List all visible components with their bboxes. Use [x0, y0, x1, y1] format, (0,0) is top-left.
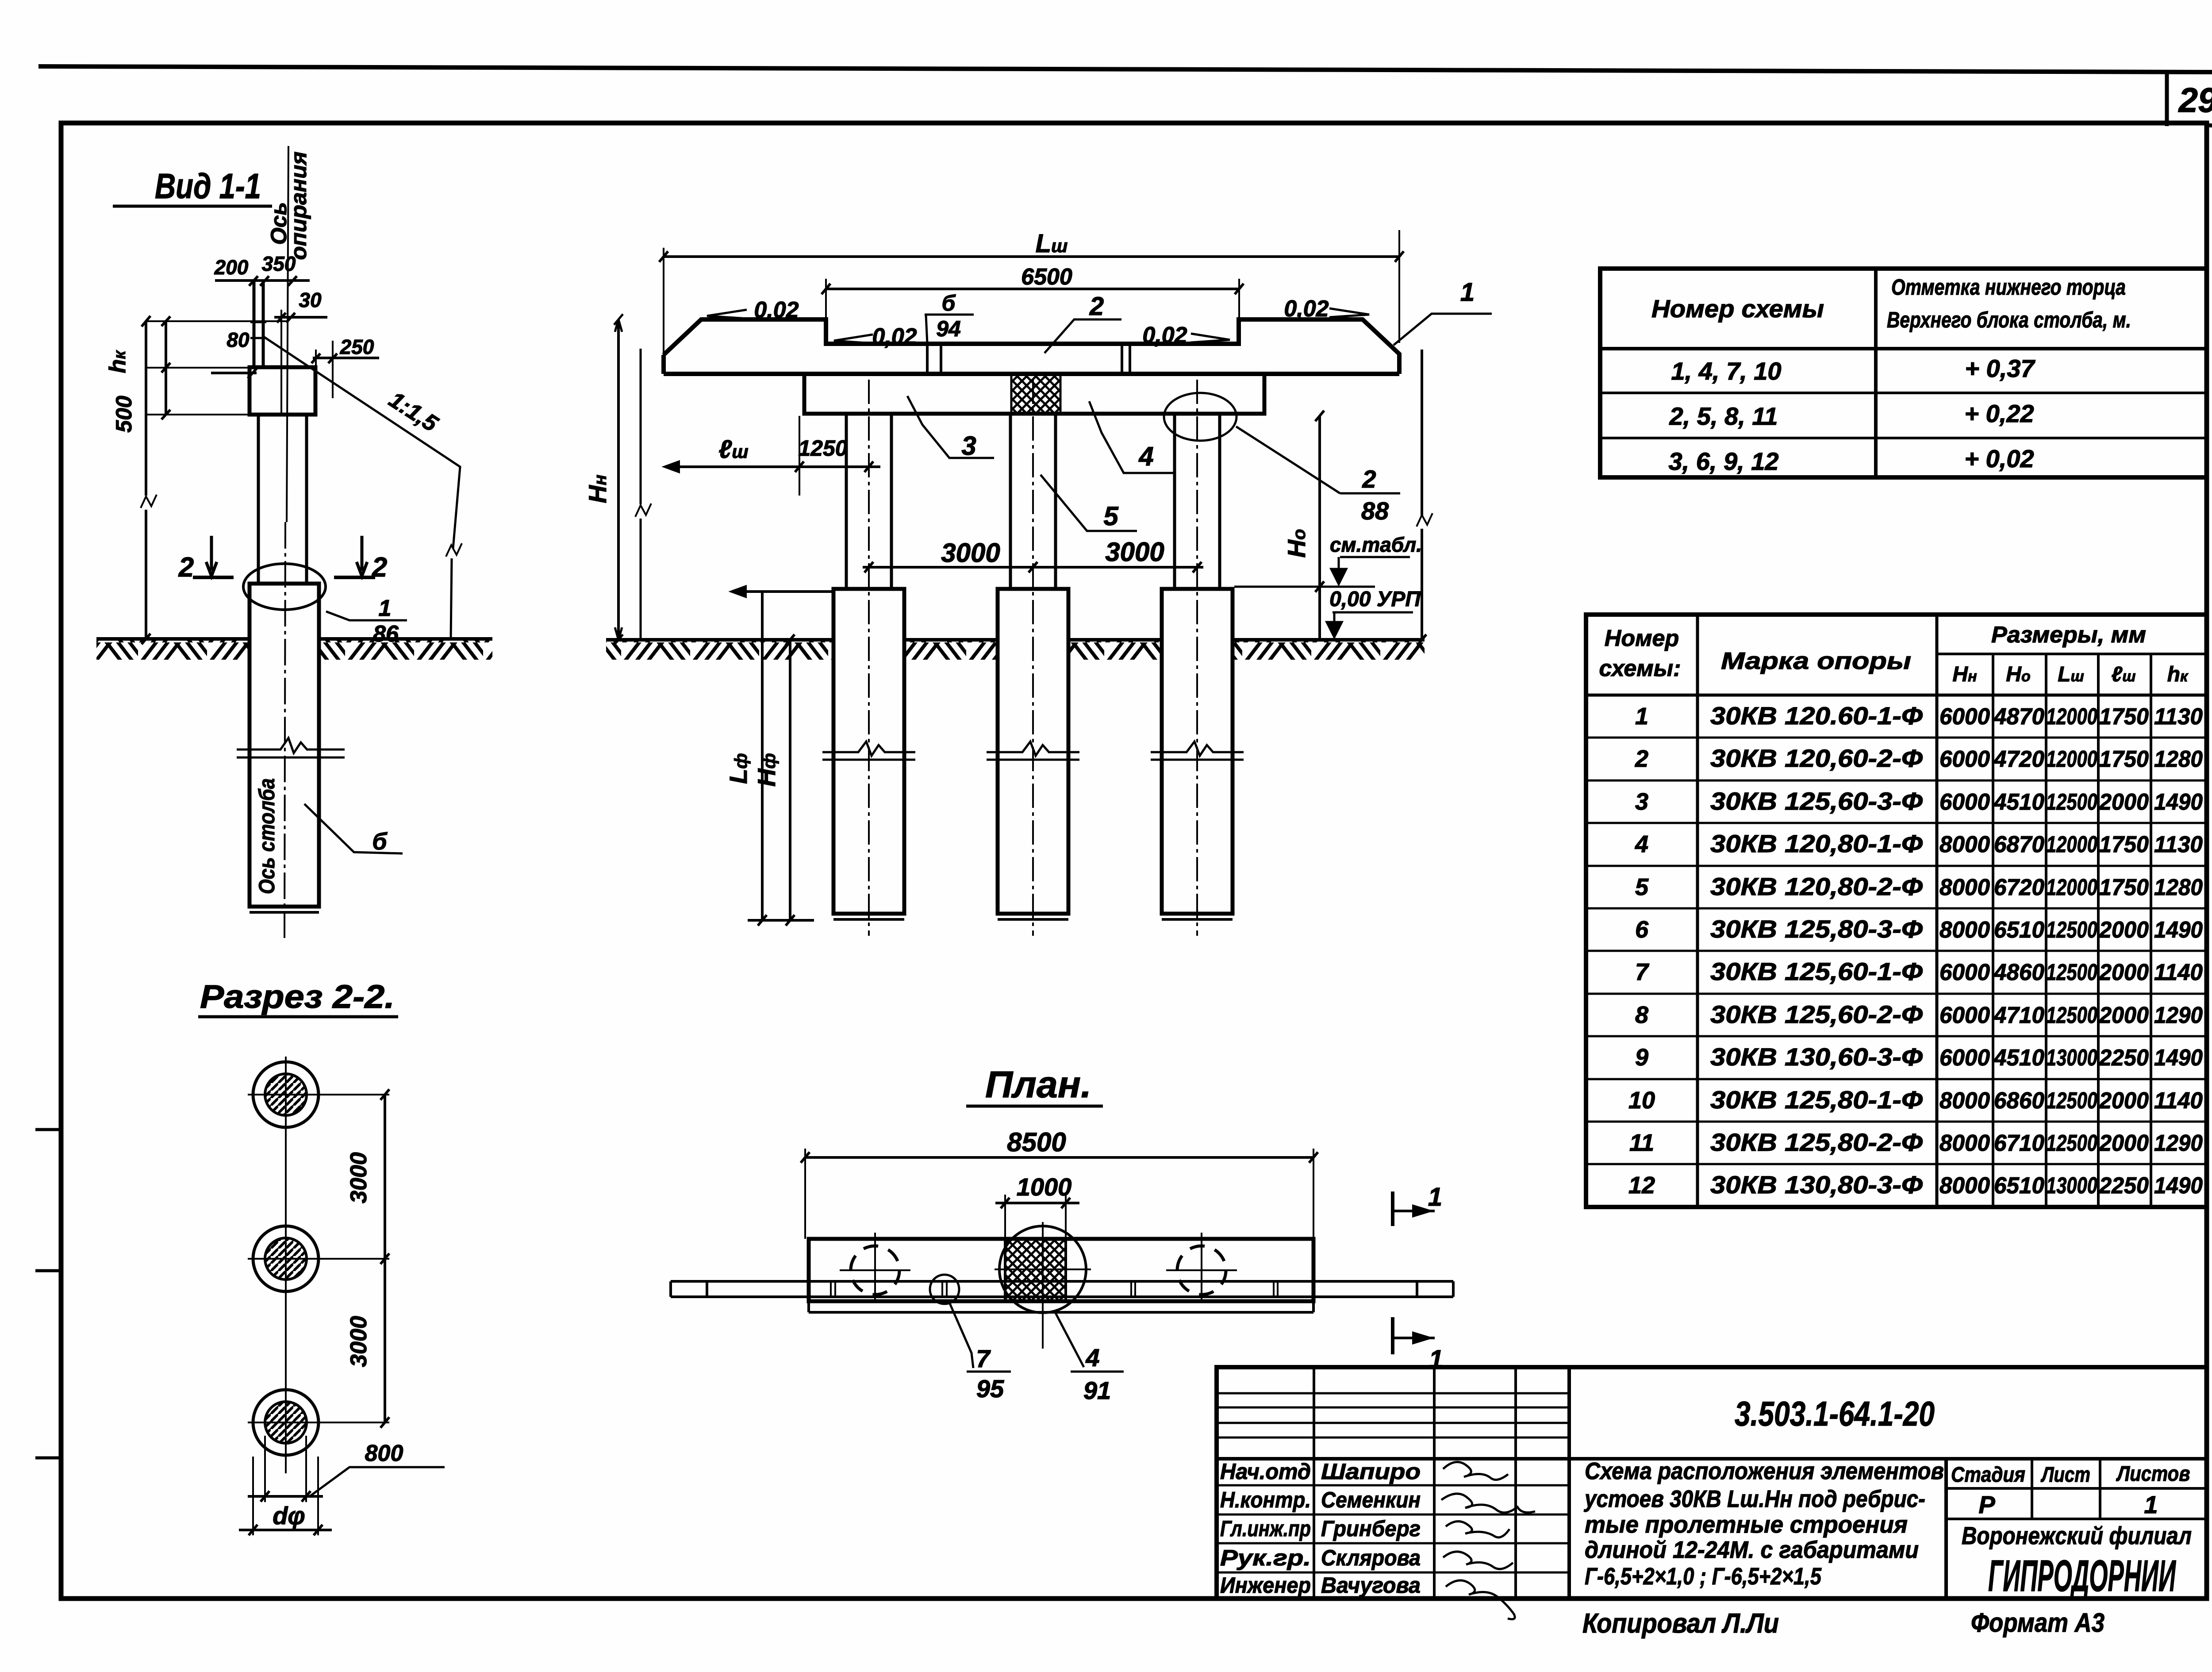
svg-text:91: 91: [1083, 1376, 1111, 1404]
plan lower band line: [809, 1311, 1313, 1314]
circle 1 inner hatched: [265, 1074, 307, 1115]
title block vertical divider 1: [1313, 1367, 1315, 1599]
svg-text:9: 9: [1635, 1044, 1648, 1071]
table2 data row 2: [1635, 744, 2203, 772]
6500 dim line: [826, 288, 1239, 290]
svg-text:4710: 4710: [1993, 1003, 2044, 1028]
callout 2/88 fraction line: [1340, 492, 1400, 495]
1000 dim ticks: [1001, 1198, 1070, 1208]
svg-text:б: б: [372, 828, 388, 855]
plan main slab rectangle: [809, 1239, 1313, 1301]
Ho dim arrows: [1315, 411, 1324, 592]
svg-text:1: 1: [1428, 1183, 1442, 1211]
table2 row line 9: [1586, 1078, 2207, 1080]
dim ticks 250: [311, 354, 337, 363]
table2 data row 6: [1635, 915, 2203, 943]
svg-text:12: 12: [1628, 1172, 1655, 1199]
bearing pad crosshatched: [1011, 375, 1060, 413]
sheet top rule line: [38, 66, 2212, 72]
callout 5 underline leader: [1041, 475, 1137, 531]
svg-text:6860: 6860: [1994, 1088, 2044, 1114]
svg-text:Номер схемы: Номер схемы: [1651, 295, 1824, 323]
section marker 2 left arrow: [206, 536, 217, 576]
dim dphi ticks: [249, 1525, 323, 1535]
ellipse callout on column 3: [1164, 393, 1237, 441]
table2 size col divider 2: [2045, 654, 2047, 1207]
slope 0.02 left outer arrow: [707, 310, 747, 319]
dim 800 leader: [310, 1467, 445, 1496]
ground hatch segment 3: [1068, 641, 1162, 660]
svg-text:Номер: Номер: [1605, 626, 1679, 651]
hidden column circle 1 (dashed): [851, 1246, 899, 1295]
signature squiggle 3: [1446, 1521, 1509, 1537]
see table level arrow: [1331, 557, 1346, 584]
callout 7/95 leader: [949, 1303, 973, 1368]
svg-text:длиной 12-24М. с габаритами: длиной 12-24М. с габаритами: [1585, 1537, 1919, 1563]
svg-text:схемы:: схемы:: [1599, 656, 1681, 681]
table2 header bottom: [1586, 694, 2207, 697]
svg-text:2000: 2000: [2099, 1003, 2149, 1028]
svg-text:12500: 12500: [2046, 960, 2097, 985]
foundation 3 bottom second line: [1162, 918, 1233, 921]
svg-text:Г-6,5+2×1,0 ; Г-6,5+2×1,5: Г-6,5+2×1,0 ; Г-6,5+2×1,5: [1585, 1563, 1822, 1590]
svg-text:12000: 12000: [2046, 746, 2097, 772]
callout 4 underline leader: [1089, 401, 1174, 473]
table2 size col divider 4: [2150, 654, 2152, 1207]
svg-text:4720: 4720: [1993, 746, 2044, 772]
svg-text:2000: 2000: [2099, 789, 2149, 815]
svg-text:1140: 1140: [2154, 1088, 2203, 1114]
svg-text:30КВ 125,80-2-Ф: 30КВ 125,80-2-Ф: [1710, 1128, 1923, 1156]
svg-text:95: 95: [976, 1375, 1004, 1403]
svg-text:тые пролетные строения: тые пролетные строения: [1585, 1511, 1908, 1538]
table2 col divider 1: [1696, 615, 1699, 1207]
table2 data row 8: [1635, 1000, 2203, 1028]
small joint circle callout: [930, 1275, 959, 1304]
circle 3 outer: [253, 1390, 319, 1455]
title block name row line 3: [1217, 1514, 1569, 1516]
svg-text:+ 0,22: + 0,22: [1964, 400, 2034, 427]
stadia header underline: [1946, 1487, 2207, 1490]
svg-text:6: 6: [1635, 916, 1649, 943]
title block vertical divider 4: [1567, 1367, 1571, 1599]
ext line cap bottom: [146, 414, 250, 415]
see table underline: [1340, 556, 1410, 558]
dim line 30: [274, 316, 327, 319]
svg-text:12500: 12500: [2046, 789, 2097, 815]
pile bottom second line: [250, 911, 319, 914]
circle 1 outer: [253, 1062, 319, 1127]
svg-text:1130: 1130: [2154, 704, 2203, 730]
column 1 axis: [868, 380, 870, 936]
table1 row line 2: [1600, 437, 2207, 439]
callout 4/91 fraction line: [1071, 1371, 1124, 1373]
pile break lines: [237, 738, 345, 757]
ground line elevation: [606, 638, 1425, 642]
svg-text:30КВ 120,80-1-Ф: 30КВ 120,80-1-Ф: [1710, 830, 1923, 857]
view 1-1 title underline: [113, 205, 272, 208]
left height dim line Hn: [617, 319, 620, 640]
svg-text:6000: 6000: [1939, 789, 1990, 815]
title block name row line 4: [1217, 1542, 1569, 1545]
ext line cap top: [146, 367, 250, 369]
3000 dim line: [863, 566, 1203, 569]
section 2-2 underline: [198, 1015, 398, 1019]
svg-text:Листов: Листов: [2116, 1462, 2190, 1486]
1000 ext lines: [1005, 1195, 1066, 1238]
title block thin row line 1: [1217, 1392, 1569, 1395]
table1 outer box: [1600, 269, 2207, 477]
svg-text:Нач.отд: Нач.отд: [1220, 1459, 1311, 1484]
hidden column circle 2 (dashed): [1177, 1246, 1226, 1295]
hk/500 dim ticks: [161, 316, 170, 419]
title block name row line 5: [1217, 1572, 1569, 1574]
Lsh left ext line: [663, 248, 664, 358]
column 1: [846, 414, 891, 588]
pier cap beam: [804, 374, 1264, 414]
svg-text:1, 4, 7, 10: 1, 4, 7, 10: [1671, 357, 1781, 385]
break mark on slope line: [446, 543, 462, 557]
callout 3 underline leader: [907, 396, 994, 458]
section marker 2 right base: [334, 576, 375, 579]
svg-text:8000: 8000: [1939, 832, 1990, 857]
svg-text:6510: 6510: [1994, 917, 2044, 943]
svg-text:5: 5: [1103, 501, 1119, 531]
table1 row line 1: [1600, 392, 2207, 394]
section marker 1 lower arrow: [1393, 1333, 1435, 1343]
svg-text:12500: 12500: [2046, 1003, 2097, 1028]
svg-text:см.табл.: см.табл.: [1330, 533, 1422, 556]
svg-text:Разрез 2-2.: Разрез 2-2.: [200, 978, 395, 1015]
svg-text:1: 1: [1635, 703, 1648, 730]
Lsh dim ticks: [659, 251, 1404, 262]
svg-text:1: 1: [379, 596, 392, 621]
svg-text:Вид 1-1: Вид 1-1: [155, 166, 261, 206]
table2 data row 10: [1628, 1086, 2203, 1114]
1000 dim line: [995, 1202, 1079, 1204]
column tenon lines: [254, 281, 263, 367]
svg-text:12000: 12000: [2046, 875, 2097, 900]
ground hatch left of pile: [96, 640, 250, 660]
svg-text:30: 30: [299, 288, 322, 311]
foundation block 2: [998, 589, 1068, 914]
shelf outline: [664, 319, 1399, 374]
svg-text:1490: 1490: [2154, 917, 2203, 943]
svg-text:94: 94: [936, 316, 961, 341]
svg-text:1490: 1490: [2154, 1045, 2203, 1071]
svg-text:2000: 2000: [2099, 917, 2149, 943]
svg-text:7: 7: [976, 1345, 991, 1372]
signature squiggle 1: [1443, 1462, 1508, 1480]
table2 row line 11: [1586, 1163, 2207, 1165]
svg-text:2000: 2000: [2099, 960, 2149, 985]
table2 row line 2: [1586, 780, 2207, 782]
dim line 250: [313, 357, 379, 359]
Lsh dim line: [664, 255, 1399, 258]
foundation block 3: [1162, 589, 1233, 914]
callout 1/86 leader: [326, 611, 407, 620]
svg-text:6870: 6870: [1994, 832, 2044, 857]
svg-text:4: 4: [1085, 1344, 1099, 1372]
svg-text:Склярова: Склярова: [1321, 1545, 1421, 1570]
6500 ext lines: [826, 279, 1239, 319]
svg-text:1750: 1750: [2099, 832, 2149, 857]
svg-text:8000: 8000: [1939, 1173, 1990, 1199]
ext line 250 left: [315, 350, 317, 374]
signature squiggle 5: [1446, 1580, 1515, 1619]
lsh/1250 dim line: [665, 465, 880, 468]
svg-text:6710: 6710: [1994, 1130, 2044, 1156]
lsh dim arrows: [665, 461, 873, 472]
Lf dim top line: [732, 587, 834, 596]
svg-text:1490: 1490: [2154, 789, 2203, 815]
title block thin row line 3: [1217, 1422, 1569, 1424]
svg-text:11: 11: [1629, 1130, 1654, 1156]
title block thin row line 2: [1217, 1407, 1569, 1409]
svg-text:2000: 2000: [2099, 1130, 2149, 1156]
title block thin row line 4: [1217, 1437, 1569, 1439]
circle 3 inner hatched: [265, 1402, 307, 1443]
svg-text:350: 350: [262, 252, 296, 275]
dim ticks 200/350: [249, 276, 297, 286]
ext line 250 right: [332, 341, 334, 398]
central bearing circle: [999, 1226, 1086, 1313]
vertical dim line hk/500: [165, 321, 167, 415]
circle 1 crosshair vertical: [874, 1233, 876, 1301]
page number box left edge: [2165, 70, 2169, 126]
svg-text:6000: 6000: [1939, 704, 1990, 730]
svg-text:+ 0,37: + 0,37: [1965, 354, 2035, 382]
level text underline: [1333, 611, 1413, 614]
shelf joint left (94): [927, 345, 941, 373]
svg-text:200: 200: [214, 256, 249, 279]
svg-text:1290: 1290: [2154, 1003, 2203, 1028]
svg-text:30КВ 125,60-2-Ф: 30КВ 125,60-2-Ф: [1710, 1000, 1923, 1028]
callout b/94 fraction line: [925, 314, 974, 316]
svg-text:Отметка нижнего торца: Отметка нижнего торца: [1891, 275, 2126, 300]
table2 size col divider 3: [2097, 654, 2100, 1207]
svg-text:1: 1: [1429, 1345, 1443, 1374]
table2 row line 8: [1586, 1035, 2207, 1038]
dim line 200/350: [215, 279, 310, 282]
column 2: [1010, 414, 1056, 588]
svg-text:86: 86: [373, 621, 399, 647]
svg-text:План.: План.: [985, 1064, 1091, 1105]
svg-text:800: 800: [365, 1441, 403, 1466]
svg-text:+ 0,02: + 0,02: [1964, 445, 2034, 473]
svg-text:13000: 13000: [2046, 1045, 2097, 1071]
table2 row line 6: [1586, 950, 2207, 952]
stadia list listov divider 2: [2099, 1459, 2101, 1519]
dim line 80: [211, 372, 257, 374]
strip joint tick 2: [1131, 1283, 1135, 1297]
table2 size col divider 1: [1992, 654, 1994, 1207]
svg-text:3000: 3000: [1105, 537, 1164, 567]
table2 row line 7: [1586, 993, 2207, 995]
ground line view 1-1: [96, 637, 492, 641]
svg-text:6510: 6510: [1994, 1173, 2044, 1199]
svg-text:2, 5, 8, 11: 2, 5, 8, 11: [1669, 402, 1778, 430]
callout b leader: [304, 804, 403, 853]
Lf/Hf bottom ticks: [758, 915, 795, 926]
dim dphi line: [239, 1529, 332, 1531]
svg-text:30КВ 120.60-1-Ф: 30КВ 120.60-1-Ф: [1710, 702, 1923, 730]
svg-text:250: 250: [340, 335, 374, 358]
svg-text:12000: 12000: [2046, 704, 2097, 730]
ground hatch segment 4: [1233, 641, 1425, 660]
svg-text:2250: 2250: [2099, 1045, 2149, 1071]
svg-text:Вачугова: Вачугова: [1321, 1573, 1421, 1598]
callout 2 underline and leader: [1045, 319, 1121, 353]
svg-text:6720: 6720: [1994, 875, 2044, 900]
title block name row line 2: [1217, 1484, 1569, 1487]
svg-text:4: 4: [1138, 442, 1153, 471]
circle 1 horizontal axis: [248, 1094, 389, 1095]
lower level arrow: [1327, 612, 1342, 637]
extension line break mark: [635, 504, 651, 517]
svg-text:8500: 8500: [1007, 1127, 1066, 1157]
tenon collar marks: [250, 322, 266, 338]
table2 row line 10: [1586, 1121, 2207, 1123]
svg-text:Схема расположения элементов: Схема расположения элементов: [1585, 1458, 1944, 1484]
table2 data row 4: [1635, 830, 2203, 857]
callout 4/91 leader: [1054, 1311, 1084, 1367]
table2 data row 3: [1635, 787, 2203, 815]
break mark on tall dim line: [141, 495, 157, 508]
stadia value row underline: [1946, 1518, 2207, 1520]
svg-text:0,00 УРП: 0,00 УРП: [1329, 588, 1421, 611]
Ho dim line: [1318, 416, 1321, 640]
svg-text:Инженер: Инженер: [1220, 1573, 1311, 1598]
svg-text:Марка опоры: Марка опоры: [1721, 648, 1911, 674]
8500 dim ticks: [801, 1152, 1318, 1163]
svg-text:dφ: dφ: [273, 1502, 305, 1530]
central bearing square hatched: [1005, 1239, 1066, 1301]
svg-text:1280: 1280: [2154, 746, 2203, 772]
svg-text:3000: 3000: [346, 1316, 372, 1367]
column offset axis: [280, 310, 282, 416]
svg-text:устоев 30КВ Lш.Нн под ребрис-: устоев 30КВ Lш.Нн под ребрис-: [1583, 1486, 1925, 1512]
section marker 1 lower bar: [1391, 1317, 1394, 1354]
foundation 2 break lines: [987, 742, 1079, 760]
right dim arrow bottom: [1417, 634, 1426, 645]
svg-text:4870: 4870: [1993, 704, 2044, 730]
svg-text:13000: 13000: [2046, 1173, 2097, 1199]
svg-text:12000: 12000: [2046, 832, 2097, 857]
3000 dim ticks: [864, 562, 1202, 573]
table1 column divider: [1874, 269, 1878, 477]
svg-text:6500: 6500: [1021, 264, 1072, 290]
column 3: [1175, 414, 1220, 588]
shelf bottom line: [664, 372, 1399, 376]
section circles vertical axis: [285, 1057, 287, 1473]
svg-text:Размеры, мм: Размеры, мм: [1991, 622, 2146, 648]
svg-text:3: 3: [1635, 788, 1648, 815]
plan wall strip bottom line: [671, 1295, 1453, 1298]
plan lower band ends: [809, 1301, 1313, 1312]
svg-text:4860: 4860: [1993, 960, 2044, 985]
strip joint tick 3: [1274, 1283, 1278, 1297]
svg-text:2: 2: [1362, 465, 1376, 493]
svg-text:3000: 3000: [941, 538, 1000, 568]
svg-text:Н.контр.: Н.контр.: [1220, 1488, 1311, 1512]
svg-text:30КВ 125,60-3-Ф: 30КВ 125,60-3-Ф: [1710, 787, 1923, 815]
foundation pile: [250, 584, 319, 907]
Lf/Hf bottom arrow line: [748, 919, 814, 922]
svg-text:ГИПРОДОРНИИ: ГИПРОДОРНИИ: [1988, 1551, 2176, 1601]
title block vertical divider 3: [1514, 1367, 1517, 1599]
svg-text:Семенкин: Семенкин: [1321, 1488, 1421, 1512]
table2 col divider 2: [1935, 615, 1939, 1207]
svg-text:1: 1: [1460, 278, 1475, 307]
svg-text:0,02: 0,02: [754, 297, 799, 323]
svg-text:29: 29: [2178, 81, 2212, 119]
foundation 1 break lines: [822, 742, 915, 760]
pile axis line: [284, 522, 285, 938]
svg-text:8: 8: [1635, 1002, 1648, 1028]
svg-text:0,02: 0,02: [872, 324, 917, 350]
svg-text:30КВ 130,60-3-Ф: 30КВ 130,60-3-Ф: [1710, 1043, 1923, 1071]
circle 2 horizontal axis: [248, 1258, 389, 1260]
svg-text:1: 1: [2144, 1491, 2158, 1518]
joint marks inside small circle: [942, 1282, 947, 1296]
ext line top of cap level: [146, 320, 288, 322]
svg-text:8000: 8000: [1939, 1130, 1990, 1156]
Hn dim arrows: [614, 314, 623, 645]
svg-text:500: 500: [111, 396, 136, 433]
svg-text:30КВ 125,60-1-Ф: 30КВ 125,60-1-Ф: [1710, 957, 1923, 985]
svg-text:30КВ 120,80-2-Ф: 30КВ 120,80-2-Ф: [1710, 873, 1923, 900]
callout 1 underline and leader: [1394, 314, 1492, 345]
column shaft: [258, 415, 307, 588]
svg-text:0,02: 0,02: [1284, 296, 1329, 322]
left margin tick 2: [35, 1269, 62, 1272]
level line 0.00: [1234, 586, 1375, 588]
frame top line right tail: [2205, 125, 2212, 126]
circle 2 outer: [253, 1226, 319, 1291]
svg-text:6000: 6000: [1939, 746, 1990, 772]
slope 0.02 left inner arrow: [834, 334, 873, 343]
table2 row line 1: [1586, 737, 2207, 739]
svg-text:0,02: 0,02: [1142, 323, 1187, 348]
table2 row line 4: [1586, 865, 2207, 867]
slope 0.02 right outer arrow: [1329, 308, 1369, 317]
svg-text:4510: 4510: [1993, 1045, 2044, 1071]
svg-text:12500: 12500: [2046, 1088, 2097, 1114]
svg-text:6000: 6000: [1939, 960, 1990, 985]
svg-text:Шапиро: Шапиро: [1321, 1459, 1421, 1484]
svg-text:1000: 1000: [1017, 1173, 1072, 1201]
table2 outer box: [1586, 615, 2207, 1207]
slab end extension line: [640, 349, 642, 640]
svg-text:Гл.инж.пр: Гл.инж.пр: [1220, 1516, 1311, 1541]
6500 dim ticks: [822, 284, 1244, 294]
svg-text:Р: Р: [1978, 1491, 1995, 1518]
svg-text:6000: 6000: [1939, 1003, 1990, 1028]
callout b/94 leader: [926, 315, 927, 343]
svg-text:Гринберг: Гринберг: [1321, 1516, 1421, 1541]
svg-text:4: 4: [1635, 831, 1648, 857]
title block outer box: [1217, 1367, 2207, 1599]
right height dim line: [1421, 350, 1423, 640]
svg-text:3.503.1-64.1-20: 3.503.1-64.1-20: [1735, 1394, 1935, 1433]
table2 sizes subheader line: [1937, 653, 2207, 655]
svg-text:8000: 8000: [1939, 1088, 1990, 1114]
table1 header bottom line: [1600, 347, 2207, 350]
svg-text:5: 5: [1635, 874, 1649, 900]
1250 ext line: [799, 416, 800, 496]
svg-text:Формат А3: Формат А3: [1971, 1608, 2104, 1637]
